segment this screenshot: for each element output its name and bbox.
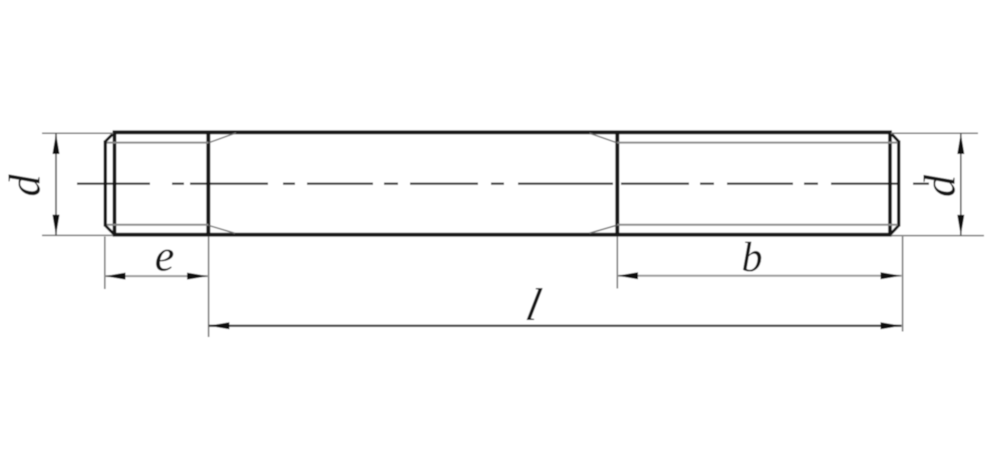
right d dimension extension line bottom bbox=[891, 235, 984, 237]
right thread start line bbox=[615, 131, 619, 237]
e dimension right extension line (shared with l) bbox=[208, 237, 210, 338]
left thread runout bottom diagonal bbox=[209, 226, 235, 234]
e dimension left extension line bbox=[104, 237, 106, 290]
left thread runout top diagonal bbox=[209, 133, 236, 143]
centerline (dash-dot axis) bbox=[77, 182, 929, 184]
right thread minor diameter top line bbox=[617, 142, 897, 144]
left chamfer top diagonal bbox=[105, 132, 114, 141]
left thread minor diameter top line bbox=[107, 142, 208, 144]
right d dimension arrow up bbox=[957, 133, 964, 154]
left d dimension extension line top bbox=[42, 132, 113, 134]
right thread minor diameter bottom line bbox=[617, 224, 897, 226]
right d dimension line bbox=[960, 133, 962, 235]
b dimension line bbox=[617, 275, 901, 277]
stud right body edge bbox=[888, 131, 892, 237]
e dimension left arrow bbox=[105, 273, 126, 280]
left d dimension line bbox=[55, 133, 57, 235]
e dimension line bbox=[105, 275, 209, 277]
stud body outline: top line bbox=[113, 130, 892, 134]
right d dimension extension line top bbox=[891, 132, 978, 134]
e dimension right arrow bbox=[187, 273, 208, 280]
right chamfer bottom diagonal bbox=[890, 226, 899, 235]
left d dimension extension line bottom bbox=[42, 234, 113, 236]
l dimension line bbox=[209, 325, 902, 327]
l dimension left arrow bbox=[209, 322, 230, 329]
right thread runout bottom diagonal bbox=[590, 225, 617, 233]
right chamfer face bbox=[897, 141, 900, 227]
right chamfer top diagonal bbox=[890, 132, 899, 141]
b dimension right extension line (shared with l) bbox=[902, 237, 904, 332]
b dimension left extension line bbox=[616, 237, 618, 289]
svg-text:e: e bbox=[155, 232, 175, 281]
svg-text:b: b bbox=[742, 235, 763, 281]
b dimension left arrow bbox=[617, 272, 638, 279]
left d dimension arrow down bbox=[53, 215, 60, 236]
stud left body edge bbox=[113, 131, 117, 237]
svg-text:d: d bbox=[916, 174, 965, 197]
right d dimension arrow down bbox=[957, 215, 964, 236]
l dimension right arrow bbox=[881, 322, 902, 329]
left thread minor diameter bottom line bbox=[107, 224, 208, 226]
stud body outline: bottom line bbox=[113, 233, 892, 237]
left d dimension arrow up bbox=[53, 133, 60, 154]
left chamfer face bbox=[104, 141, 107, 227]
left thread end line bbox=[206, 131, 210, 237]
b dimension right arrow bbox=[881, 272, 902, 279]
svg-text:d: d bbox=[1, 174, 50, 197]
left chamfer bottom diagonal bbox=[105, 226, 114, 235]
right thread runout top diagonal bbox=[590, 133, 617, 142]
